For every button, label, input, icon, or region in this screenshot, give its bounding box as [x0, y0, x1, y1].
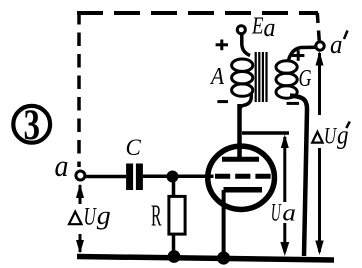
svg-text:C: C	[126, 135, 142, 160]
svg-text:E: E	[251, 14, 264, 40]
svg-text:3: 3	[24, 102, 41, 149]
svg-text:U: U	[84, 204, 98, 231]
svg-text:R: R	[151, 198, 162, 233]
svg-text:a: a	[55, 148, 69, 183]
svg-text:a: a	[264, 13, 276, 42]
svg-text:U: U	[324, 123, 338, 149]
svg-text:g: g	[97, 201, 111, 230]
svg-text:G: G	[299, 66, 312, 92]
svg-text:A: A	[209, 64, 224, 90]
svg-text:a: a	[330, 30, 343, 59]
svg-text:U: U	[271, 198, 282, 227]
svg-text:g: g	[337, 121, 349, 150]
svg-text:a: a	[282, 200, 296, 227]
